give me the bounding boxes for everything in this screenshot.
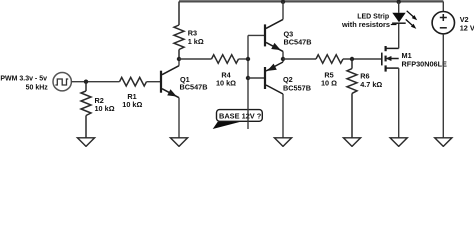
annotation BASE 12V ?	[213, 110, 263, 129]
svg-text:BC557B: BC557B	[283, 84, 311, 93]
transistor Q1 BC547B (NPN)	[161, 66, 179, 98]
wire R1 to Q1 base	[147, 81, 162, 83]
resistor R5	[316, 55, 343, 64]
wire Q2 emitter stub	[282, 59, 284, 62]
ground (R2)	[77, 138, 94, 147]
resistor R1	[120, 77, 147, 86]
transistor Q2 BC557B (PNP)	[265, 62, 283, 94]
node R3/Q1/R4	[177, 57, 181, 61]
node emitters output	[281, 57, 285, 61]
node R5/R6/gate	[350, 57, 354, 61]
ground (R6)	[343, 138, 360, 147]
wire Q1 emitter down	[178, 98, 180, 138]
svg-text:50 kHz: 50 kHz	[26, 85, 49, 92]
svg-text:1 kΩ: 1 kΩ	[188, 37, 204, 46]
ground (V2)	[435, 138, 452, 147]
MOSFET M1 RFP30N06LE	[382, 46, 399, 72]
wire MOSFET drain up to LED	[398, 23, 400, 48]
PWM source V1	[53, 73, 71, 91]
resistor R6	[347, 59, 357, 138]
ground (Q2 collector)	[274, 138, 291, 147]
svg-text:4.7 kΩ: 4.7 kΩ	[360, 80, 382, 89]
wire output to R5	[283, 58, 316, 60]
resistor R4	[212, 55, 239, 64]
node R4 on base line	[246, 57, 250, 61]
ground (MOSFET source)	[390, 138, 407, 147]
svg-text:BASE 12V ?: BASE 12V ?	[219, 112, 262, 121]
wire Q3 collector to rail	[282, 2, 284, 20]
svg-text:PWM 3.3v - 5v: PWM 3.3v - 5v	[0, 75, 47, 82]
resistor R2	[81, 82, 91, 138]
transistor Q3 BC547B (NPN)	[265, 19, 283, 51]
wire R4 to base line	[239, 58, 249, 60]
svg-text:RFP30N06LE: RFP30N06LE	[402, 59, 448, 68]
svg-text:BC547B: BC547B	[284, 37, 312, 46]
svg-text:10 kΩ: 10 kΩ	[95, 104, 115, 113]
node Q3 collector on rail	[281, 0, 285, 4]
wire Q3 emitter to output node	[282, 51, 284, 59]
svg-text:12 V: 12 V	[460, 23, 474, 32]
node LED branch on rail	[397, 0, 401, 4]
wire Q1 collector up	[178, 59, 180, 66]
wire node to R4	[179, 58, 212, 60]
LED D1	[392, 2, 417, 29]
wire Q2 collector down	[282, 94, 284, 138]
LED arrows	[407, 11, 414, 17]
wire to Q2 base	[248, 77, 265, 79]
wire base line vertical	[247, 35, 249, 129]
node input	[84, 80, 88, 84]
svg-text:10 Ω: 10 Ω	[321, 78, 337, 87]
resistor R3	[174, 2, 184, 60]
svg-text:BC547B: BC547B	[180, 83, 208, 92]
wire PWM to R1	[71, 81, 119, 83]
wire top rail	[179, 0, 443, 2]
svg-text:10 kΩ: 10 kΩ	[216, 78, 236, 87]
wire R5 to gate	[343, 58, 382, 60]
svg-text:Q2: Q2	[283, 75, 293, 84]
node Q2 base on base line	[246, 76, 250, 80]
leader dash	[391, 24, 397, 26]
svg-text:10 kΩ: 10 kΩ	[122, 100, 142, 109]
source V2	[432, 2, 454, 138]
wire MOSFET source down	[398, 68, 400, 138]
svg-text:with resistors: with resistors	[341, 20, 390, 29]
wire to Q3 base	[248, 34, 265, 36]
ground (Q1 emitter)	[170, 138, 187, 147]
